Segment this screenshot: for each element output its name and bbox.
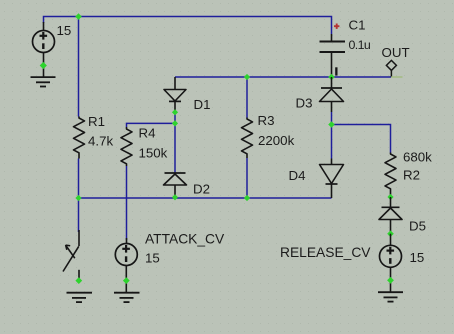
value label 0.1u	[349, 38, 371, 52]
wire: vertical from top rail down to R1	[78, 17, 80, 117]
svg-text:R2: R2	[403, 168, 420, 183]
svg-text:R1: R1	[88, 114, 105, 129]
value label 15 of ATTACK_CV	[145, 251, 160, 266]
reference label R1	[88, 114, 105, 129]
svg-text:680k: 680k	[403, 150, 432, 165]
wire: upper rail from D1 anode to OUT	[175, 76, 391, 78]
reference label C1	[349, 18, 366, 33]
node dot at R3 bottom on lower rail	[244, 195, 250, 201]
net label OUT	[382, 45, 410, 60]
ground under ATTACK_CV	[114, 293, 140, 302]
node dot at R2/D5 junction	[387, 194, 393, 200]
net label ATTACK_CV	[145, 232, 225, 247]
current marker tick near C1 lead	[335, 67, 337, 75]
wire: lower rail from switch node to D4	[79, 197, 332, 199]
node dot at C1 bottom junction	[328, 74, 335, 81]
node dot under switch	[75, 277, 82, 284]
wire: R1 bottom to lower rail	[78, 159, 80, 199]
wire: R4 top branch to D1/D2 node	[127, 123, 176, 127]
resistor R1	[74, 117, 85, 159]
svg-text:D5: D5	[409, 219, 426, 234]
wire: D1 anode stub to upper rail	[174, 77, 176, 90]
value label 680k	[403, 150, 432, 165]
svg-text:15: 15	[145, 251, 160, 266]
port OUT	[386, 60, 396, 77]
svg-text:R4: R4	[139, 126, 156, 141]
wire: lower rail junction down to switch	[78, 198, 80, 232]
node dot below D1	[172, 109, 178, 115]
reference label D4	[289, 168, 306, 183]
diode D4	[320, 159, 344, 199]
diode D1	[164, 90, 186, 113]
wire: R3 bottom to lower rail	[246, 158, 248, 198]
resistor R2	[385, 153, 396, 198]
node dot at V1 minus pin	[40, 62, 47, 69]
capacitor C1	[320, 34, 346, 77]
resistor R3	[242, 118, 253, 159]
diode D3	[320, 77, 344, 112]
value label 4.7k	[88, 134, 113, 149]
svg-text:OUT: OUT	[382, 45, 410, 60]
svg-text:150k: 150k	[139, 146, 168, 161]
ground under switch	[67, 293, 93, 302]
svg-text:2200k: 2200k	[258, 133, 295, 148]
polarity plus mark of C1	[334, 24, 339, 29]
voltage source V1	[33, 22, 55, 77]
voltage source RELEASE_CV	[380, 234, 402, 292]
reference label D3	[296, 96, 313, 111]
reference label D5	[409, 219, 426, 234]
node dot at D2 anode on lower rail	[172, 194, 178, 200]
ground under RELEASE_CV	[378, 292, 403, 301]
value label 2200k	[258, 133, 295, 148]
value label 150k	[139, 146, 168, 161]
node dot at D3 anode junction	[328, 121, 335, 128]
wire: D3/D4 node across to R2	[332, 125, 391, 153]
net label RELEASE_CV	[280, 245, 371, 260]
svg-text:D4: D4	[289, 168, 306, 183]
svg-text:RELEASE_CV: RELEASE_CV	[280, 245, 371, 260]
reference label R3	[258, 113, 275, 128]
value label 15 of V1	[57, 23, 72, 38]
svg-text:C1: C1	[349, 18, 366, 33]
node dot at upper rail R3 branch	[244, 74, 250, 80]
node dot under ATTACK_CV	[123, 277, 130, 284]
svg-text:D1: D1	[194, 97, 211, 112]
diode D2	[164, 173, 187, 197]
ground under V1	[31, 77, 56, 86]
svg-text:15: 15	[410, 250, 425, 265]
svg-text:R3: R3	[258, 113, 275, 128]
pale net stub right of OUT node	[391, 76, 403, 78]
node dot at top rail / R1 branch	[75, 13, 82, 20]
reference label D2	[193, 182, 210, 197]
svg-text:D3: D3	[296, 96, 313, 111]
wire: D3 anode node down to D4	[331, 112, 333, 159]
svg-text:ATTACK_CV: ATTACK_CV	[145, 232, 225, 247]
svg-text:D2: D2	[193, 182, 210, 197]
switch S1	[63, 230, 79, 282]
node dot at lower rail switch branch	[75, 195, 81, 201]
node dot at R4 branch junction	[172, 120, 178, 126]
reference label R4	[139, 126, 156, 141]
reference label D1	[194, 97, 211, 112]
resistor R4	[121, 127, 132, 166]
voltage source ATTACK_CV	[115, 238, 137, 292]
svg-text:15: 15	[57, 23, 72, 38]
wire: upper rail down to R3	[246, 77, 248, 118]
svg-text:4.7k: 4.7k	[88, 134, 113, 149]
wire: R4 bottom through lower rail down to ATTACK_CV	[126, 166, 128, 240]
wire: top rail from V1 to C1	[44, 17, 332, 35]
node dot between D5 and RELEASE_CV source	[387, 230, 394, 237]
node dot under RELEASE_CV	[387, 277, 394, 284]
value label 15 of RELEASE_CV	[410, 250, 425, 265]
wire: D1 cathode to D2 cathode vertical	[174, 112, 176, 172]
diode D5	[379, 197, 402, 234]
svg-text:0.1u: 0.1u	[349, 38, 371, 52]
reference label R2	[403, 168, 420, 183]
